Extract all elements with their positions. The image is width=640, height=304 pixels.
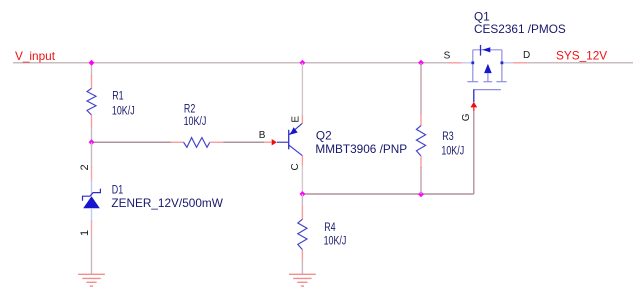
Q1 source connection dot [471, 61, 474, 64]
Q1 drain connection dot [501, 61, 504, 64]
svg-text:B: B [259, 130, 266, 141]
pin arrow at Q1 gate [470, 102, 477, 108]
svg-text:10K/J: 10K/J [324, 236, 347, 248]
svg-text:G: G [461, 113, 472, 121]
Q1 drain pin lead [502, 62, 513, 64]
junction node at R1/R2/D1 [89, 139, 95, 145]
svg-text:CES2361 /PMOS: CES2361 /PMOS [474, 22, 566, 36]
wire: collector column down [301, 165, 303, 194]
pin arrow at Q2 base [272, 139, 277, 145]
junction node at collector/R4 [300, 191, 306, 197]
resistor R2 [171, 138, 224, 148]
wire: V_input rail [13, 62, 448, 64]
svg-text:V_input: V_input [15, 49, 56, 63]
ground symbol middle [289, 274, 316, 286]
svg-text:MMBT3906 /PNP: MMBT3906 /PNP [315, 142, 407, 156]
svg-text:10K/J: 10K/J [112, 105, 135, 117]
svg-text:E: E [291, 116, 302, 123]
Q1 body outline [467, 50, 506, 90]
junction node at R3 bottom [418, 191, 424, 197]
wire: gate net horizontal [302, 193, 473, 195]
svg-text:10K/J: 10K/J [184, 116, 207, 128]
wire: R2 to Q2 base [224, 141, 265, 143]
svg-text:R2: R2 [184, 104, 196, 116]
wire: D1 to ground [91, 234, 93, 275]
svg-text:R4: R4 [324, 222, 336, 234]
wire: SYS_12V rail right of Q1 [527, 62, 634, 64]
Q1 body diode bar [480, 45, 482, 56]
svg-text:C: C [290, 163, 301, 170]
svg-text:1: 1 [79, 230, 91, 236]
resistor R3 [416, 114, 425, 169]
wire: R4 top lead [301, 194, 303, 207]
svg-text:10K/J: 10K/J [441, 146, 464, 158]
wire: D1 top lead [91, 142, 93, 168]
wire: Q2 base lead salmon [264, 141, 272, 143]
Q1 source pin lead [448, 62, 462, 64]
transistor Q2 [277, 115, 302, 166]
wire: base net horizontal to R2 [92, 141, 172, 143]
svg-text:SYS_12V: SYS_12V [556, 49, 607, 63]
svg-text:D: D [523, 50, 530, 61]
wire: gate column vertical [473, 111, 475, 195]
svg-text:R1: R1 [112, 90, 124, 102]
junction node at V_input/R1 [89, 60, 95, 66]
junction node at V_input/R3 column [418, 60, 424, 66]
wire: R4 to ground [301, 260, 303, 275]
transistor Q1 [448, 45, 527, 102]
svg-text:S: S [444, 51, 451, 62]
svg-text:Q2: Q2 [316, 128, 332, 142]
junction node at V_input/Q2 emitter column [300, 60, 306, 66]
Q1 substrate arrow [484, 64, 492, 73]
svg-text:2: 2 [79, 164, 91, 170]
resistor R4 [298, 206, 307, 261]
ground symbol left [78, 274, 105, 286]
wire: emitter column up to rail [301, 63, 303, 116]
svg-text:ZENER_12V/500mW: ZENER_12V/500mW [111, 196, 223, 210]
diode D1 zener [83, 167, 101, 234]
wire: R3 top lead from rail [420, 63, 422, 115]
wire: R1 bottom lead vertical [91, 128, 93, 143]
Q1 gate drop [473, 90, 475, 103]
Q1 body diode arrow [482, 47, 490, 52]
svg-text:R3: R3 [442, 131, 454, 143]
wire: R1 top lead vertical [91, 63, 93, 77]
wire: R3 bottom lead [420, 167, 422, 194]
resistor R1 [87, 75, 96, 129]
